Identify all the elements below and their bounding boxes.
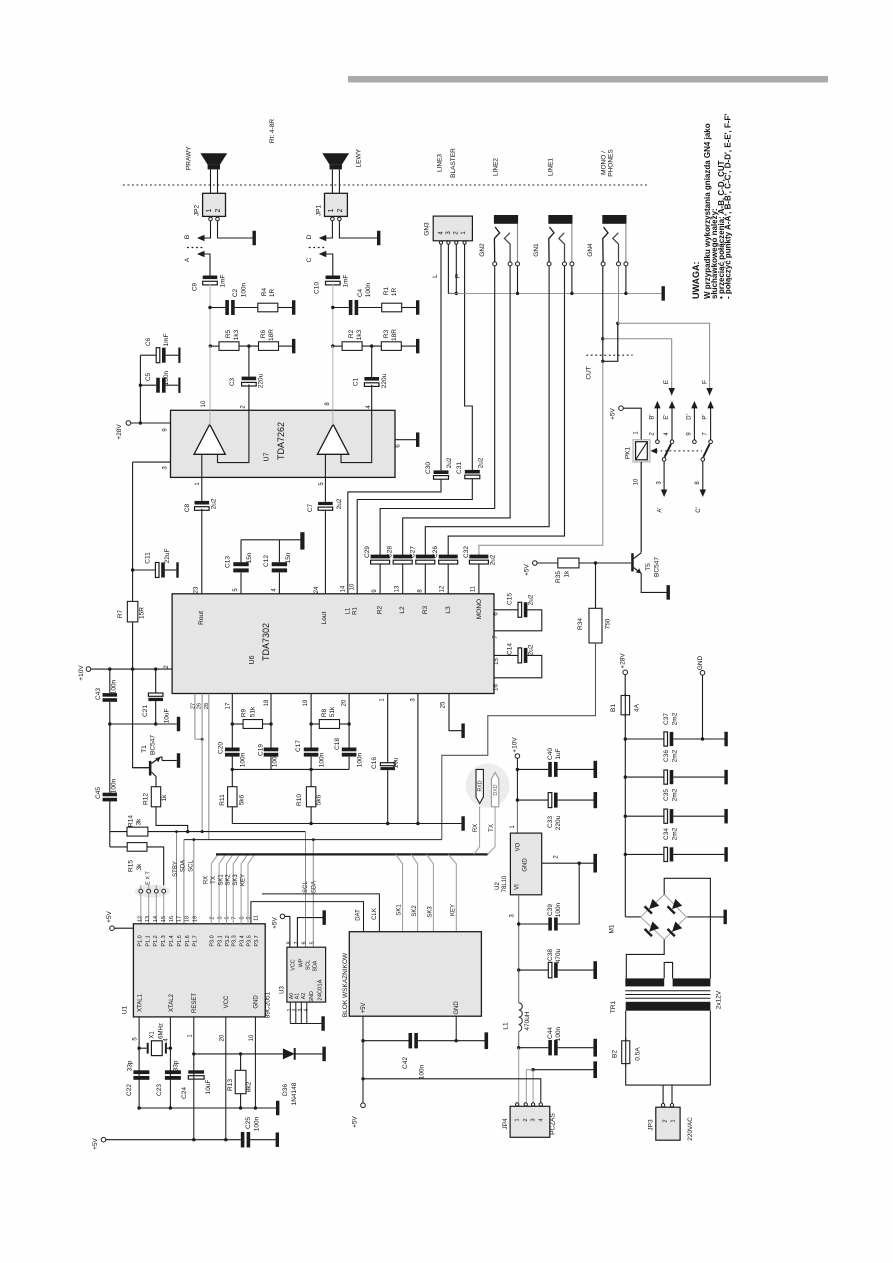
capacitor C44 <box>548 1040 552 1055</box>
wire GN2 tip to C29 staircase <box>380 266 495 555</box>
svg-text:C7: C7 <box>307 503 314 512</box>
resistor R35 <box>558 558 579 568</box>
wire P3 lines to bus <box>210 864 212 924</box>
svg-text:U7: U7 <box>264 452 271 461</box>
capacitor C12 <box>278 573 280 594</box>
wire +5V rail micro <box>106 1139 241 1141</box>
wire JP2 pin2 to ground <box>218 221 253 238</box>
svg-text:D': D' <box>687 414 693 419</box>
svg-text:P3.5: P3.5 <box>246 935 252 946</box>
wire +28V to fuse B1 <box>624 675 626 696</box>
ground <box>300 532 304 549</box>
dotted jumper link C-D <box>309 247 327 249</box>
svg-text:1: 1 <box>671 1119 677 1122</box>
svg-text:P3.7: P3.7 <box>254 935 260 946</box>
node D arrow <box>319 235 327 242</box>
svg-text:C14: C14 <box>507 643 514 655</box>
wire R10 to gnd rail <box>310 807 312 824</box>
svg-text:STBY: STBY <box>173 861 179 877</box>
svg-text:220u: 220u <box>555 815 562 830</box>
capacitor C34 <box>664 847 668 861</box>
svg-text:R2: R2 <box>377 605 384 614</box>
wire R9 to pin18 line <box>263 723 272 725</box>
svg-text:1N4148: 1N4148 <box>291 1082 298 1105</box>
svg-text:C22: C22 <box>126 1084 133 1096</box>
svg-text:18R: 18R <box>268 329 275 341</box>
svg-text:1mF: 1mF <box>342 274 349 287</box>
ground <box>178 378 180 393</box>
svg-text:TX: TX <box>489 824 495 832</box>
wire U8 pin6-7 loop with C15 <box>494 609 518 611</box>
terminal GND (supply) <box>700 671 705 676</box>
ground <box>292 339 295 354</box>
svg-text:RX: RX <box>204 876 210 884</box>
resistor R3 <box>381 342 401 351</box>
svg-text:100n: 100n <box>254 1116 261 1131</box>
transformer TR1 secondary winding bar <box>625 978 664 986</box>
svg-text:U2: U2 <box>495 882 501 890</box>
svg-text:1: 1 <box>515 1118 521 1121</box>
svg-text:C5: C5 <box>145 372 152 381</box>
svg-text:1k: 1k <box>161 794 168 802</box>
svg-text:470uH: 470uH <box>524 1011 531 1030</box>
node CUT link <box>601 360 604 363</box>
wire SCL to U1 pin19 <box>193 840 195 924</box>
capacitor C18 <box>342 748 357 752</box>
wire C13/C12 tops to ground <box>241 539 300 541</box>
ground <box>416 339 419 354</box>
capacitor C33 <box>548 793 552 808</box>
svg-text:Rt: 4-8R: Rt: 4-8R <box>269 119 276 144</box>
wire U2 pin3 to L1 <box>518 970 520 1003</box>
wire common filter row <box>232 768 349 770</box>
svg-text:P3.2: P3.2 <box>225 935 231 946</box>
wire bus drop SK2 <box>411 854 418 931</box>
wire C35 row <box>625 815 664 817</box>
svg-text:E: E <box>663 379 670 384</box>
wire GN1 ring to C26 staircase <box>448 266 564 555</box>
transformer TR1 primary winding bar <box>626 1002 711 1011</box>
svg-text:CUT: CUT <box>586 366 593 379</box>
svg-text:+5V: +5V <box>272 916 279 928</box>
capacitor C27 <box>416 555 435 559</box>
svg-text:GN3: GN3 <box>424 222 431 236</box>
svg-text:VCC: VCC <box>224 995 230 1008</box>
svg-text:JP4: JP4 <box>502 1118 509 1130</box>
svg-text:P1.6: P1.6 <box>185 935 191 946</box>
ground <box>594 792 598 808</box>
capacitor C23 <box>165 1070 181 1074</box>
wire STBY row <box>110 831 306 833</box>
ground <box>594 761 598 778</box>
svg-text:SK1: SK1 <box>397 904 403 916</box>
wire JP2 pin1 to point B <box>203 221 211 238</box>
wire C33 row <box>517 799 548 801</box>
capacitor C13 <box>240 573 242 594</box>
wire speaker to JP2 <box>210 169 212 193</box>
wire to C2 <box>210 307 225 309</box>
wire T5 emitter to ground <box>641 573 666 592</box>
ground <box>724 847 727 862</box>
wire +10V node <box>516 758 518 800</box>
resistor R13 <box>235 1070 246 1093</box>
svg-text:33p: 33p <box>127 1060 134 1071</box>
svg-text:SK2: SK2 <box>412 905 418 917</box>
svg-text:2u2: 2u2 <box>490 554 497 565</box>
capacitor C21 <box>155 669 157 693</box>
svg-text:89C2051: 89C2051 <box>265 991 272 1018</box>
svg-text:C21: C21 <box>142 705 149 717</box>
svg-text:1mF: 1mF <box>220 274 227 287</box>
svg-text:C25: C25 <box>245 1117 252 1129</box>
micro U1 89C2051 <box>133 924 265 1017</box>
terminal +5V (U3) <box>280 914 285 919</box>
wire R7 to +10V rail and T1 base <box>133 622 149 768</box>
wire U7 pin 3 net <box>133 461 171 463</box>
svg-text:4: 4 <box>303 1008 309 1011</box>
svg-text:R11: R11 <box>219 794 226 806</box>
svg-text:C40: C40 <box>547 748 554 760</box>
ground <box>253 231 256 246</box>
svg-text:VO: VO <box>516 842 522 851</box>
svg-text:+28V: +28V <box>116 424 123 440</box>
svg-text:C: C <box>306 257 313 262</box>
wire GN4 tip upper segment <box>602 266 604 361</box>
node GN4 ring junction <box>616 322 619 325</box>
relay actuator arrow <box>651 448 658 454</box>
svg-text:20: 20 <box>220 1034 226 1041</box>
capacitor C6 <box>140 354 156 356</box>
ground <box>276 1132 279 1147</box>
wire C to C10 <box>325 254 333 276</box>
svg-text:2: 2 <box>663 1119 669 1122</box>
wire bus drop SK3 <box>427 854 434 931</box>
terminal +10V (supply) <box>515 754 520 759</box>
wire node to C3 <box>248 346 250 377</box>
op-amp B (left ch) inside U7 <box>317 424 348 454</box>
speaker PRAWY <box>200 153 227 164</box>
wire C9 net to U7 pin 10 <box>209 346 211 410</box>
switch blade 1 and common pin 3 <box>665 444 671 457</box>
svg-text:P1.0: P1.0 <box>138 935 144 946</box>
wire GN3 pin3 to ground row <box>448 244 456 293</box>
svg-text:SDA: SDA <box>181 860 187 872</box>
flag RXD <box>476 769 483 803</box>
capacitor C40 <box>548 762 552 777</box>
svg-text:R3: R3 <box>383 329 390 338</box>
wire U8 pin20 line <box>348 694 350 748</box>
svg-text:R4: R4 <box>261 287 268 296</box>
node B arrow <box>197 235 205 242</box>
wire bridge top to transformer right <box>664 878 710 978</box>
svg-text:1uF: 1uF <box>555 748 562 759</box>
node C38 tap <box>517 968 520 971</box>
wire bridge right to ground <box>687 916 723 918</box>
wire C9 down (net Rch) <box>209 283 211 307</box>
wire C36 row <box>625 776 664 778</box>
svg-text:51k: 51k <box>250 706 257 717</box>
svg-text:14: 14 <box>341 585 347 592</box>
capacitor C4 <box>349 300 353 315</box>
wire U8 pin1 line with C16 <box>387 694 389 763</box>
svg-text:R12: R12 <box>143 793 150 805</box>
switch blade 2 and common pin 8 <box>703 444 709 457</box>
terminal +5V (micro) <box>101 1137 106 1142</box>
ground <box>321 1016 324 1031</box>
svg-text:100n: 100n <box>240 752 247 767</box>
wire JP1 pin1 to point D <box>325 221 332 238</box>
svg-text:C34: C34 <box>663 828 670 840</box>
wire GN4 tip to E switch line <box>603 339 672 396</box>
svg-text:1R: 1R <box>391 288 398 297</box>
wire U8 pin25 to ground <box>449 694 461 731</box>
svg-text:F: F <box>702 380 709 384</box>
svg-text:10uF: 10uF <box>205 1080 212 1095</box>
wire bus rise RX <box>474 807 480 855</box>
wire U7 pin 6 to ground <box>395 439 416 441</box>
capacitor C5 <box>140 384 156 386</box>
svg-text:R9: R9 <box>241 708 248 717</box>
svg-text:24C01A: 24C01A <box>318 979 324 1000</box>
svg-text:R3: R3 <box>422 605 429 614</box>
ground <box>593 854 597 873</box>
svg-text:C38: C38 <box>547 949 554 961</box>
wire STBY to U1 pin17 <box>176 832 178 924</box>
wire to R5 <box>210 345 219 347</box>
wire GND line <box>254 1017 256 1108</box>
svg-text:C36: C36 <box>663 750 670 762</box>
svg-text:P3.1: P3.1 <box>218 935 224 946</box>
wire primary right to JP3 <box>709 1011 711 1085</box>
svg-text:MONO /: MONO / <box>601 151 608 175</box>
svg-text:2x12V: 2x12V <box>716 990 723 1009</box>
bridge rectifier M1 <box>641 894 687 939</box>
svg-text:+5V: +5V <box>106 910 113 922</box>
svg-text:13: 13 <box>395 585 401 592</box>
capacitor C31 <box>465 470 480 474</box>
svg-text:P1.4: P1.4 <box>169 935 175 946</box>
svg-text:C16: C16 <box>371 757 378 769</box>
wire L1 to C44 node <box>518 1032 520 1048</box>
svg-text:R6: R6 <box>260 329 267 338</box>
svg-text:SDA: SDA <box>311 881 317 893</box>
svg-text:18: 18 <box>185 916 191 922</box>
svg-text:2: 2 <box>337 208 344 212</box>
wire digital ground rail <box>139 1107 276 1109</box>
capacitor C37 <box>664 732 668 746</box>
resistor R7 <box>127 601 138 622</box>
svg-text:2u2: 2u2 <box>528 594 535 605</box>
node junction R2 tap <box>331 344 334 347</box>
ground <box>177 717 180 732</box>
svg-text:100n: 100n <box>555 1026 562 1041</box>
wire opamp A output pin 1 <box>201 454 203 477</box>
capacitor C16 <box>380 763 395 766</box>
wire ground row for jack sleeves <box>448 292 661 294</box>
wire relay to T5 collector <box>640 462 642 553</box>
svg-text:U6: U6 <box>249 655 256 664</box>
svg-text:R35: R35 <box>555 571 562 583</box>
jack connector GN1 <box>548 215 572 224</box>
svg-text:100n: 100n <box>319 752 326 767</box>
svg-text:6: 6 <box>302 941 308 944</box>
op-amp IC U7 TDA7262 <box>171 410 396 477</box>
wire GN4 sleeve stub <box>625 266 627 293</box>
dotted jumper link A-B <box>187 247 205 249</box>
ground <box>461 723 464 738</box>
ground <box>724 910 727 925</box>
node A arrow <box>197 251 205 258</box>
wire CUT link <box>603 325 618 362</box>
wire GN3 pin2 to ground row <box>455 244 457 293</box>
svg-text:LINE3: LINE3 <box>437 154 444 172</box>
wire GN1 sleeve stub <box>571 266 573 293</box>
svg-text:7: 7 <box>231 916 237 919</box>
svg-text:22uF: 22uF <box>164 549 171 564</box>
capacitor C11 <box>133 569 156 571</box>
connector JP1 <box>325 193 348 216</box>
svg-text:M1: M1 <box>609 924 616 933</box>
jack connector GN2 <box>494 215 518 224</box>
ground <box>593 1039 597 1057</box>
svg-text:5k6: 5k6 <box>239 794 246 805</box>
node C11 tap <box>131 568 134 571</box>
wire to C4 <box>333 307 349 309</box>
svg-text:7: 7 <box>294 941 300 944</box>
wire XTAL2 line <box>169 1017 171 1108</box>
ground <box>724 770 727 785</box>
svg-text:JP3: JP3 <box>648 1119 655 1131</box>
speaker LEWY <box>322 153 349 164</box>
svg-text:3k: 3k <box>136 863 143 871</box>
wire pin3 net down left side <box>132 462 134 601</box>
wire GN3 pin1 net P to C31 <box>465 244 473 470</box>
wire C44 row <box>519 1047 549 1049</box>
svg-text:+10V: +10V <box>512 737 519 753</box>
resistor R6 <box>259 342 279 351</box>
svg-text:RESET: RESET <box>192 993 198 1013</box>
svg-text:L3: L3 <box>445 606 452 614</box>
svg-text:R1: R1 <box>353 607 359 615</box>
wire opamp B output pin 5 <box>324 454 326 477</box>
svg-text:100n: 100n <box>365 282 372 297</box>
svg-text:SCL: SCL <box>189 860 195 872</box>
svg-text:C33: C33 <box>547 816 554 828</box>
svg-text:5k6: 5k6 <box>316 794 323 805</box>
svg-text:SK3: SK3 <box>233 874 239 886</box>
svg-text:A2: A2 <box>301 993 307 1000</box>
svg-text:PRAWY: PRAWY <box>185 146 192 170</box>
svg-text:10: 10 <box>634 478 640 485</box>
ground <box>276 1101 279 1116</box>
ground <box>377 231 380 246</box>
resistor R15 <box>127 843 147 852</box>
ground <box>176 562 178 577</box>
svg-text:2m2: 2m2 <box>672 749 679 762</box>
capacitor C39 <box>548 917 552 930</box>
wire R11 to gnd rail <box>231 807 233 824</box>
svg-text:C12: C12 <box>263 555 270 567</box>
wire U8 pin19 line <box>310 694 312 748</box>
svg-text:P1.5: P1.5 <box>177 935 183 946</box>
node C39 tap <box>517 922 520 925</box>
wire +10V row into U8 pin 2 <box>91 668 172 670</box>
terminal +28V (supply) <box>623 670 628 675</box>
capacitor C22 <box>133 1070 149 1074</box>
resistor R10 <box>306 787 315 807</box>
svg-text:3k: 3k <box>136 818 143 826</box>
dotted mechanical link <box>656 450 702 452</box>
wires JP3 pin drops <box>662 1085 664 1103</box>
svg-text:2u2: 2u2 <box>336 498 343 509</box>
wire C34 row <box>625 853 664 855</box>
svg-text:100n: 100n <box>272 752 279 767</box>
audio processor U6 TDA7302 <box>172 594 494 694</box>
ground <box>593 961 597 979</box>
svg-text:A1: A1 <box>295 993 301 1000</box>
svg-text:CLK: CLK <box>372 908 378 920</box>
EXT pins <box>139 889 143 893</box>
wire +5V to U3 pin8 <box>285 916 290 947</box>
svg-text:L1: L1 <box>346 607 352 614</box>
wire bus drop KEY <box>449 854 457 931</box>
flag DXD <box>491 773 498 807</box>
ground <box>323 910 326 925</box>
svg-text:19: 19 <box>303 699 309 706</box>
wire GN3 pin4 net L to C30 <box>440 244 442 470</box>
svg-text:SK3: SK3 <box>428 906 434 918</box>
ground <box>461 816 464 831</box>
switch contact pin 9 <box>693 440 697 444</box>
svg-text:T5: T5 <box>645 563 652 571</box>
svg-text:VI: VI <box>514 884 520 890</box>
svg-text:GN1: GN1 <box>533 243 540 257</box>
svg-text:L: L <box>432 274 439 278</box>
connector JP3 220VAC <box>661 1104 664 1107</box>
svg-text:C11: C11 <box>145 552 152 564</box>
svg-text:C45: C45 <box>95 787 102 799</box>
svg-text:P1.1: P1.1 <box>145 935 151 946</box>
svg-text:- połączyć punkty A-A', B-B',: - połączyć punkty A-A', B-B', C-C', D-D'… <box>724 114 733 299</box>
svg-text:10: 10 <box>249 1034 255 1041</box>
svg-text:C19: C19 <box>258 744 265 756</box>
node RESET row <box>192 1052 195 1055</box>
dotted CUT marker line <box>586 354 632 356</box>
node junction C4 tap <box>331 306 334 309</box>
svg-text:A: A <box>184 257 191 262</box>
wire opamp A feedback to pin 2 <box>218 410 249 462</box>
wire U8 pin3 line <box>417 694 419 824</box>
svg-text:C29: C29 <box>364 546 371 558</box>
terminal +5V (relay) <box>619 406 624 411</box>
svg-text:4A: 4A <box>634 703 641 712</box>
wire C2 to R4 <box>235 307 258 309</box>
connector GN3 <box>433 216 472 241</box>
svg-text:C18: C18 <box>334 738 341 750</box>
capacitor C42 <box>409 1033 413 1048</box>
svg-text:C23: C23 <box>156 1084 163 1096</box>
svg-text:8k2: 8k2 <box>246 1081 253 1092</box>
svg-text:8: 8 <box>239 916 245 919</box>
svg-text:BLOK WSKAZNIKOW: BLOK WSKAZNIKOW <box>342 952 349 1017</box>
wire dotted separator line <box>123 184 649 186</box>
svg-text:13: 13 <box>145 916 151 922</box>
svg-text:TDA7262: TDA7262 <box>276 422 286 460</box>
svg-text:C': C' <box>696 507 702 512</box>
svg-text:14: 14 <box>153 916 159 922</box>
ground <box>485 1032 489 1049</box>
svg-text:1: 1 <box>206 208 213 212</box>
